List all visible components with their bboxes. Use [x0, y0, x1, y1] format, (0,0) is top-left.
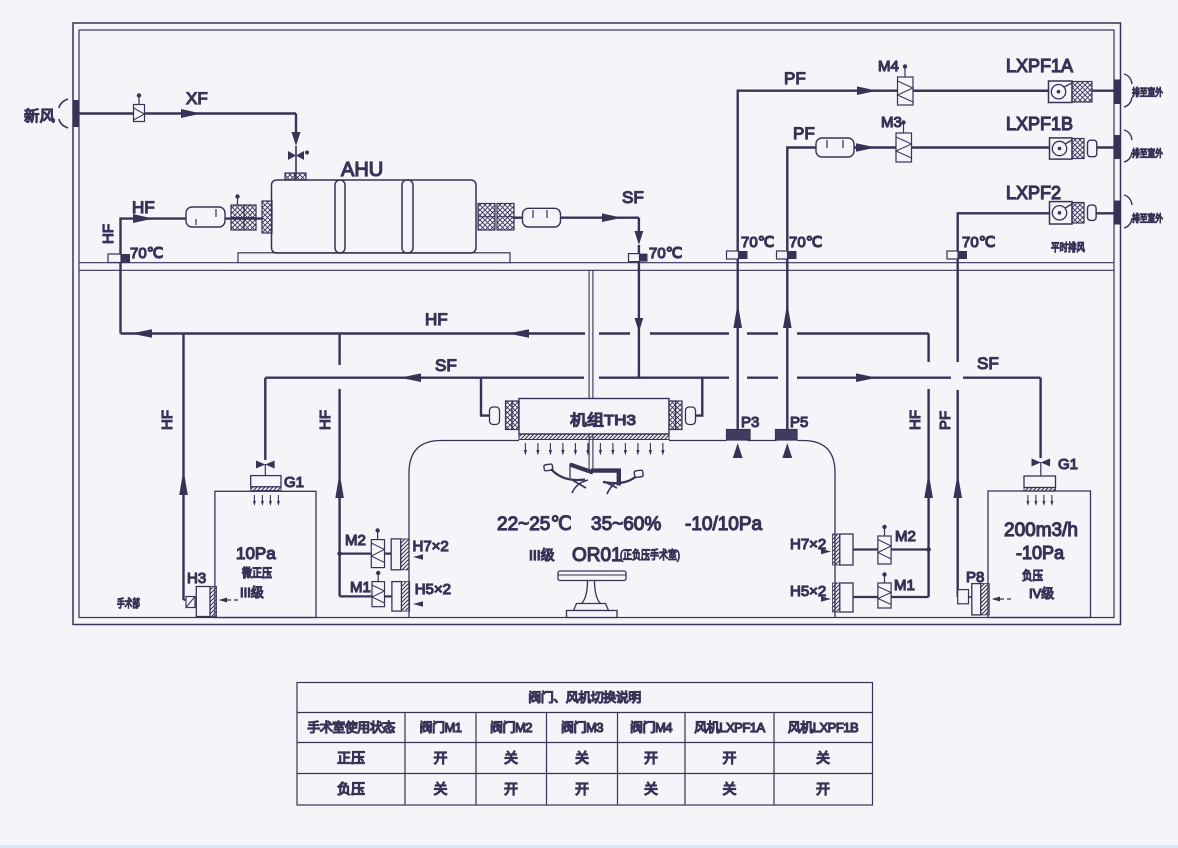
switching table frame — [297, 683, 873, 806]
svg-text:HF: HF — [159, 410, 176, 430]
duct LXPF2 line — [958, 213, 1049, 251]
svg-text:HF: HF — [132, 198, 155, 217]
svg-text:70℃: 70℃ — [741, 234, 775, 251]
fan LXPF1A — [913, 81, 1116, 103]
AHU outlet filters — [478, 204, 514, 231]
svg-text:10Pa: 10Pa — [236, 544, 276, 563]
surgical lamp in OR01 — [544, 464, 644, 495]
exhaust grille G1 left room — [251, 378, 281, 506]
flow arrow XF — [181, 109, 201, 118]
svg-text:M1: M1 — [894, 577, 915, 594]
operating table — [558, 571, 626, 618]
HF riser right — [927, 389, 929, 597]
flow arrow HF header left — [131, 329, 152, 338]
svg-text:M1: M1 — [350, 579, 371, 596]
filter TH3 right — [669, 401, 682, 430]
valve M1 left — [340, 571, 392, 607]
svg-text:排至室外: 排至室外 — [1132, 147, 1163, 160]
svg-text:-10Pa: -10Pa — [1016, 543, 1065, 563]
AHU unit (three sections) — [272, 180, 477, 253]
fan LXPF2 — [1050, 202, 1117, 224]
fire damper 70C on P3 column — [727, 251, 748, 259]
filter H5x2 right — [821, 583, 853, 612]
svg-text:手术室使用状态: 手术室使用状态 — [307, 720, 395, 735]
table header row — [307, 720, 858, 735]
svg-text:P8: P8 — [966, 569, 984, 586]
HF riser to H3 — [182, 334, 184, 601]
svg-text:LXPF1B: LXPF1B — [1006, 114, 1073, 134]
flow arrow P5 column up — [783, 303, 792, 328]
recirculation unit TH3 connections left — [481, 378, 490, 416]
svg-text:LXPF2: LXPF2 — [1006, 183, 1061, 203]
flow arrow right HF riser — [924, 473, 933, 498]
svg-text:阀门、风机切换说明: 阀门、风机切换说明 — [528, 690, 641, 705]
svg-text:AHU: AHU — [341, 159, 383, 181]
flow arrow SF header left — [400, 373, 421, 382]
svg-text:阀门M4: 阀门M4 — [630, 720, 672, 735]
fresh-air intake louver on west wall — [59, 99, 80, 128]
pressure sensor P5 — [776, 430, 798, 459]
duct SF supply header — [265, 378, 1040, 458]
svg-text:排至室外: 排至室外 — [1132, 212, 1163, 225]
flow arrow P3 column up — [733, 303, 742, 328]
svg-text:关: 关 — [723, 781, 737, 797]
svg-text:M3: M3 — [881, 114, 902, 131]
duct HF return header — [121, 334, 929, 363]
svg-text:H7×2: H7×2 — [790, 536, 826, 553]
svg-text:IV级: IV级 — [1029, 586, 1054, 601]
flow arrow SF riser — [635, 318, 644, 332]
HF riser to M2/M1 left — [338, 334, 340, 597]
svg-text:22~25℃: 22~25℃ — [497, 514, 572, 535]
svg-text:风机LXPF1A: 风机LXPF1A — [694, 720, 765, 735]
silencer TH3 left — [490, 407, 500, 425]
arrowhead SF down — [635, 231, 644, 245]
TH3 connection right — [696, 378, 703, 416]
flow arrow PF riser — [953, 473, 962, 498]
svg-text:35~60%: 35~60% — [591, 514, 661, 535]
svg-text:70℃: 70℃ — [130, 245, 164, 262]
svg-text:-10/10Pa: -10/10Pa — [685, 514, 763, 535]
filter H5x2 left — [392, 582, 423, 612]
svg-text:M4: M4 — [878, 58, 899, 75]
exhaust outlet 1B through wall — [1115, 130, 1133, 162]
duct PF1 (P3 to LXPF1A) — [738, 91, 1049, 429]
svg-text:关: 关 — [816, 750, 830, 766]
silencer on PF2 — [816, 138, 854, 157]
PF riser right — [957, 259, 959, 597]
duct SF riser down to plenum — [638, 245, 640, 378]
svg-text:新风: 新风 — [24, 108, 55, 125]
filter H7x2 right — [821, 534, 853, 565]
svg-text:HF: HF — [425, 310, 448, 329]
arrowhead XF down into AHU — [292, 132, 301, 146]
svg-text:70℃: 70℃ — [789, 234, 823, 251]
svg-text:平时排风: 平时排风 — [1051, 240, 1085, 254]
duct HF into AHU — [121, 219, 187, 334]
svg-text:阀门M1: 阀门M1 — [419, 720, 461, 735]
silencer TH3 right — [686, 407, 696, 425]
svg-text:M2: M2 — [345, 532, 366, 549]
pressure sensor P3 — [727, 430, 751, 459]
flow arrow SF header right — [856, 373, 877, 382]
svg-text:PF: PF — [793, 124, 815, 143]
svg-text:HF: HF — [317, 410, 334, 430]
svg-text:关: 关 — [434, 781, 448, 797]
svg-text:机组TH3: 机组TH3 — [570, 412, 636, 429]
fan LXPF1B — [912, 138, 1117, 159]
svg-text:XF: XF — [186, 89, 208, 108]
table row 正压 — [337, 750, 830, 766]
valve M1 right — [853, 572, 929, 608]
valve on XF line — [134, 93, 145, 121]
svg-text:P3: P3 — [741, 414, 759, 431]
svg-text:手术部: 手术部 — [117, 596, 140, 610]
TH3 supply arrows into OR — [524, 443, 665, 456]
svg-text:(正负压手术室): (正负压手术室) — [620, 547, 680, 562]
svg-text:70℃: 70℃ — [962, 234, 996, 251]
ceiling division double line — [79, 263, 1114, 271]
svg-text:H5×2: H5×2 — [415, 581, 451, 598]
svg-text:负压: 负压 — [337, 781, 365, 797]
flow arrow PF1 — [857, 86, 877, 95]
svg-text:开: 开 — [644, 750, 658, 766]
positive pressure room (10Pa) — [215, 491, 316, 617]
svg-text:SF: SF — [622, 188, 644, 207]
duct SF from AHU — [561, 218, 639, 232]
svg-text:HF: HF — [907, 410, 924, 430]
svg-text:正压: 正压 — [337, 750, 365, 766]
valve M3 — [896, 120, 912, 162]
svg-text:关: 关 — [644, 781, 658, 797]
svg-text:70℃: 70℃ — [649, 245, 683, 262]
bag filter at AHU left face — [262, 201, 272, 233]
fire damper 70C on P5 column — [777, 251, 797, 259]
exhaust outlet 2 through wall — [1115, 195, 1133, 228]
svg-text:P5: P5 — [790, 414, 808, 431]
butterfly damper on AHU top inlet — [288, 146, 309, 175]
filter H3 — [184, 587, 239, 617]
operating room OR01 outline — [409, 441, 835, 618]
fire damper 70C on SF riser — [629, 254, 648, 262]
outer machine-room wall (double rectangle) — [73, 23, 1121, 625]
svg-text:关: 关 — [575, 750, 589, 766]
svg-text:开: 开 — [434, 750, 448, 766]
flow arrow left M-riser — [335, 473, 344, 498]
filter TH3 left — [506, 401, 519, 430]
svg-text:H5×2: H5×2 — [790, 583, 826, 600]
inlet filter blocks on AHU top — [285, 173, 306, 180]
valve M2 right — [853, 525, 931, 564]
svg-text:HF: HF — [100, 224, 117, 244]
svg-text:开: 开 — [816, 781, 830, 797]
valve M4 — [898, 64, 914, 105]
AHU base plate — [238, 253, 510, 263]
svg-text:SF: SF — [977, 354, 999, 373]
svg-text:PF: PF — [784, 69, 806, 88]
svg-text:H7×2: H7×2 — [413, 538, 449, 555]
svg-text:风机LXPF1B: 风机LXPF1B — [788, 720, 858, 735]
pressure sensor P8 — [958, 584, 1011, 615]
svg-text:G1: G1 — [1058, 456, 1078, 473]
negative pressure room (IV) — [988, 491, 1091, 618]
svg-text:阀门M3: 阀门M3 — [561, 720, 603, 735]
svg-text:负压: 负压 — [1022, 569, 1043, 583]
duct PF2 (P5 to LXPF1B) — [787, 148, 816, 430]
svg-text:III级: III级 — [240, 585, 264, 600]
central supply duct (double line) — [589, 270, 593, 472]
svg-text:M2: M2 — [895, 528, 916, 545]
silencer on HF line — [186, 207, 225, 227]
table row 负压 — [337, 781, 830, 797]
return-air valve + filter box before AHU — [225, 194, 263, 230]
flow arrow SF — [602, 213, 622, 222]
svg-text:200m3/h: 200m3/h — [1004, 520, 1078, 541]
exhaust grille G1 right room — [1024, 459, 1056, 507]
flow arrow HF header mid — [508, 329, 529, 338]
fire damper 70C on HF riser — [108, 254, 130, 263]
fire damper 70C on PF riser — [947, 251, 967, 259]
svg-text:开: 开 — [723, 750, 737, 766]
svg-text:III级: III级 — [529, 547, 555, 563]
flow arrow PF2 — [856, 143, 876, 152]
recirculation unit TH3 — [519, 399, 669, 440]
svg-text:SF: SF — [435, 356, 457, 375]
svg-text:OR01: OR01 — [572, 545, 622, 566]
flow arrow H3 riser — [179, 470, 188, 495]
bottom page edge tint — [0, 845, 1178, 848]
exhaust outlet 1A through wall — [1115, 74, 1133, 107]
silencer on SF line — [514, 208, 561, 227]
duct XF horizontal — [79, 114, 296, 134]
svg-text:LXPF1A: LXPF1A — [1006, 56, 1073, 76]
svg-text:PF: PF — [937, 411, 954, 430]
svg-text:关: 关 — [504, 750, 518, 766]
svg-text:阀门M2: 阀门M2 — [490, 720, 532, 735]
valve M2 left — [337, 528, 391, 567]
flow arrow HF — [133, 214, 153, 223]
svg-text:H3: H3 — [187, 570, 206, 587]
svg-text:排至室外: 排至室外 — [1132, 86, 1163, 99]
filter H7x2 left — [391, 539, 423, 570]
svg-text:微正压: 微正压 — [242, 566, 272, 580]
svg-text:G1: G1 — [284, 474, 304, 491]
svg-text:开: 开 — [504, 781, 518, 797]
svg-text:开: 开 — [575, 781, 589, 797]
